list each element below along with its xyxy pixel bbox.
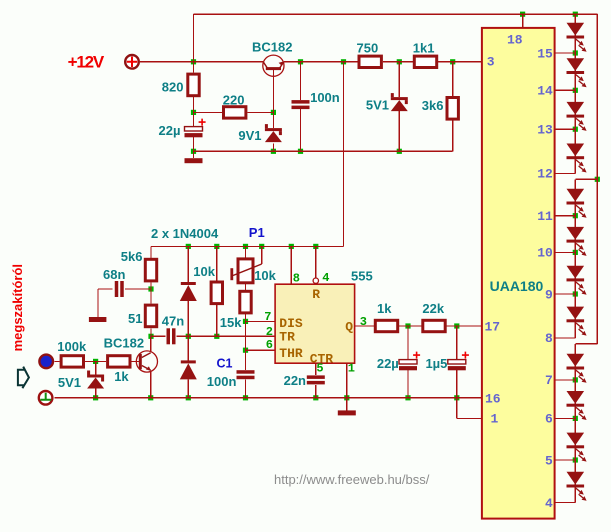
node base of Q2 bbox=[93, 359, 98, 364]
svg-text:2 x 1N4004: 2 x 1N4004 bbox=[151, 226, 219, 241]
wire UAA pin 7 wire bbox=[555, 379, 576, 381]
capacitor 22u electrolytic bbox=[159, 119, 206, 139]
node top wire pin18 bbox=[520, 12, 525, 17]
svg-text:R: R bbox=[312, 287, 320, 302]
svg-text:220: 220 bbox=[223, 92, 245, 107]
wire rail1 horizontal bbox=[194, 150, 453, 152]
svg-text:10k: 10k bbox=[254, 268, 276, 283]
wire P1 top lead bbox=[245, 246, 247, 257]
wire gnd stub colA bbox=[193, 151, 195, 158]
op-amp U2 555 timer IC body bbox=[275, 268, 373, 363]
wire Q1 emitter to 750 bbox=[284, 61, 358, 63]
LED D10 bbox=[567, 307, 587, 336]
pin 4 reset bubble bbox=[313, 278, 318, 283]
wire 1u5 bottom lead bbox=[456, 370, 458, 398]
UAA pin 13 label bbox=[537, 123, 553, 138]
UAA pin 17 label bbox=[485, 319, 501, 334]
UAA pin 10 label bbox=[537, 246, 553, 261]
wire Q pin3 wire bbox=[355, 325, 374, 327]
555 pin1 label bbox=[348, 362, 355, 376]
capacitor 22u output electrolytic bbox=[377, 352, 420, 372]
node diode wire D1 top bbox=[186, 244, 191, 249]
svg-text:BC182: BC182 bbox=[104, 336, 144, 351]
capacitor C1 100n bbox=[207, 356, 255, 389]
wire UAA pin 10 wire bbox=[555, 251, 576, 253]
LED D11 bbox=[567, 354, 587, 383]
wire 22n to ground rail bbox=[315, 385, 317, 398]
wire 1k to 22u2 node bbox=[399, 325, 421, 327]
diode zener 5V1 input bbox=[58, 371, 104, 390]
wire 47n left lead bbox=[151, 335, 166, 337]
wire TR row wire bbox=[177, 335, 276, 337]
node diode wire pin8 bbox=[289, 244, 294, 249]
node TR row D1 bbox=[186, 334, 191, 339]
wire D2 top lead bbox=[187, 336, 189, 360]
wire Q2 emitter vertical bbox=[150, 371, 152, 398]
LED D8 bbox=[567, 227, 587, 256]
svg-text:9: 9 bbox=[545, 287, 553, 302]
wire group2 feed bbox=[575, 178, 597, 180]
node +12V rail / 820 top bbox=[191, 59, 196, 64]
LED D7 bbox=[567, 189, 587, 218]
svg-text:5V1: 5V1 bbox=[366, 98, 389, 113]
resistor R3 750 bbox=[357, 40, 382, 67]
terminal ground (circle) bbox=[39, 391, 53, 405]
wire 5k6 top stub bbox=[150, 246, 152, 257]
resistor R13 1k input bbox=[108, 356, 130, 384]
wire pin1 stub 555 bbox=[346, 363, 348, 398]
svg-text:6: 6 bbox=[266, 338, 273, 352]
svg-text:22µ: 22µ bbox=[377, 356, 399, 371]
label P1 bbox=[249, 225, 265, 240]
svg-text:6: 6 bbox=[545, 412, 553, 427]
node Q row 22u bbox=[405, 323, 410, 328]
wire 51 to TR row bbox=[150, 328, 152, 336]
node rail1 5V1 bbox=[397, 149, 402, 154]
svg-text:100n: 100n bbox=[310, 90, 340, 105]
resistor R8 10k bbox=[193, 264, 222, 304]
wire Q2 collector vertical bbox=[150, 336, 152, 352]
node Q row 1u5 bbox=[454, 323, 459, 328]
svg-text:+12V: +12V bbox=[68, 52, 105, 71]
svg-text:1k: 1k bbox=[377, 301, 392, 316]
svg-text:C1: C1 bbox=[217, 356, 233, 370]
wire C1 to ground rail bbox=[245, 380, 247, 398]
wire DIS pin wire bbox=[246, 320, 276, 322]
node rail1 9V1 bbox=[271, 149, 276, 154]
svg-text:UAA180: UAA180 bbox=[490, 278, 544, 294]
resistor R11 22k bbox=[422, 301, 445, 331]
wire pin4 stub bbox=[315, 246, 317, 277]
diode D1 1N4004 bbox=[180, 282, 197, 301]
wire 5V1 top stub bbox=[398, 62, 400, 97]
svg-text:820: 820 bbox=[162, 80, 184, 95]
svg-text:5: 5 bbox=[545, 453, 553, 468]
wire UAA pin 12 wire bbox=[555, 172, 576, 174]
555 pin2 label bbox=[266, 325, 273, 339]
resistor R10 1k output bbox=[375, 301, 397, 331]
wire UAA pin 6 wire bbox=[555, 417, 576, 419]
svg-text:BC182: BC182 bbox=[252, 39, 292, 54]
wire 5V1b top lead bbox=[95, 361, 97, 374]
capacitor 22n bbox=[284, 373, 325, 388]
svg-text:3k6: 3k6 bbox=[422, 98, 444, 113]
ground 555 area bbox=[338, 410, 356, 415]
UAA pin 15 label bbox=[537, 46, 553, 61]
svg-text:1: 1 bbox=[348, 362, 355, 376]
svg-text:750: 750 bbox=[357, 40, 379, 55]
svg-text:http://www.freeweb.hu/bss/: http://www.freeweb.hu/bss/ bbox=[274, 472, 430, 487]
svg-text:15k: 15k bbox=[220, 315, 242, 330]
svg-text:100k: 100k bbox=[57, 339, 87, 354]
svg-text:CTR: CTR bbox=[310, 352, 334, 367]
node LED tap pin10 bbox=[573, 250, 578, 255]
555 pin8 label bbox=[293, 272, 300, 286]
wire UAA pin 13 wire bbox=[555, 128, 576, 130]
diode zener 9V1 bbox=[238, 124, 282, 143]
wire 1k2 to Q2 base bbox=[130, 360, 139, 362]
UAA pin 1 label bbox=[491, 412, 499, 427]
node 68n node bbox=[148, 286, 153, 291]
ground colA bbox=[185, 158, 203, 163]
wire DIS node to THR node bbox=[245, 321, 247, 350]
555 pin3 label bbox=[360, 315, 367, 329]
node LED tap pin11 bbox=[573, 213, 578, 218]
node ground rail emitter Q2 bbox=[148, 395, 153, 400]
diode D2 1N4004 bbox=[180, 360, 197, 379]
wire UAA pin 4 wire bbox=[555, 502, 576, 504]
555 pin6 label bbox=[266, 338, 273, 352]
node ground rail pin1-555 bbox=[344, 395, 349, 400]
node diode wire P1 top bbox=[243, 244, 248, 249]
UAA pin 4 label bbox=[545, 496, 553, 511]
svg-text:5V1: 5V1 bbox=[58, 375, 81, 390]
node LED tap pin9 bbox=[573, 291, 578, 296]
label +12V bbox=[68, 52, 105, 71]
svg-text:1µ5: 1µ5 bbox=[425, 356, 447, 371]
svg-text:555: 555 bbox=[351, 268, 373, 283]
svg-text:1k: 1k bbox=[114, 369, 129, 384]
svg-text:15: 15 bbox=[537, 46, 553, 61]
wire wiper stub bbox=[261, 246, 263, 264]
wire UAA pin18 stub bbox=[522, 14, 524, 28]
svg-text:16: 16 bbox=[485, 391, 501, 406]
resistor R6 5k6 bbox=[121, 249, 157, 281]
wire 5k6 to 68n node bbox=[150, 283, 152, 289]
node ground rail D2 bbox=[186, 395, 191, 400]
wire 3k6 top stub bbox=[452, 62, 454, 96]
wire D1 top lead bbox=[187, 246, 189, 282]
node THR node bbox=[243, 348, 248, 353]
node diode wire wiper bbox=[259, 244, 264, 249]
node LED tap pin14 bbox=[573, 88, 578, 93]
node TR row 51/collector bbox=[148, 334, 153, 339]
node rail1 22u bbox=[191, 149, 196, 154]
UAA pin 5 label bbox=[545, 453, 553, 468]
svg-text:9V1: 9V1 bbox=[238, 128, 261, 143]
wire 1k1 to UAA pin3 bbox=[438, 61, 482, 63]
svg-text:5k6: 5k6 bbox=[121, 249, 143, 264]
LED D12 bbox=[567, 391, 587, 420]
wire 1u5 top lead bbox=[456, 326, 458, 360]
svg-text:10: 10 bbox=[537, 246, 553, 261]
node ground rail 1u5 bbox=[454, 395, 459, 400]
resistor R4 1k1 bbox=[413, 40, 437, 67]
LED D4 bbox=[567, 58, 587, 87]
555 pin name R bbox=[312, 287, 320, 302]
node 220 left bbox=[191, 110, 196, 115]
node LED tap pin15 bbox=[573, 50, 578, 55]
resistor R7 51 bbox=[128, 305, 157, 327]
svg-text:8: 8 bbox=[545, 331, 553, 346]
wire D2 bottom lead bbox=[187, 379, 189, 397]
wire gnd stub colO bbox=[346, 398, 348, 411]
label 2x1N4004 bbox=[151, 226, 219, 241]
capacitor 47n bbox=[162, 313, 184, 344]
node rail1 100n bbox=[298, 149, 303, 154]
wire 9V1 top stub bbox=[272, 112, 274, 128]
capacitor 100n supply bbox=[292, 90, 340, 109]
svg-text:3: 3 bbox=[360, 315, 367, 329]
svg-text:22µ: 22µ bbox=[159, 123, 181, 138]
svg-text:47n: 47n bbox=[162, 313, 184, 328]
wire +12V terminal to Q1 collector bbox=[140, 61, 263, 63]
wire UAA pin 8 wire bbox=[555, 337, 576, 339]
node DIS node bbox=[243, 319, 248, 324]
svg-text:7: 7 bbox=[545, 373, 553, 388]
555 pin name THR bbox=[279, 346, 303, 361]
node ground rail pin5 bbox=[313, 395, 318, 400]
wire diode row 1N4004 bbox=[151, 245, 344, 247]
label URL bbox=[274, 472, 430, 487]
wire LED chain group3 bbox=[574, 344, 576, 503]
svg-text:2: 2 bbox=[266, 325, 273, 339]
wire right LED rail bbox=[596, 14, 598, 344]
UAA pin 9 label bbox=[545, 287, 553, 302]
UAA pin 3 label bbox=[487, 54, 495, 69]
wire 22u to rail1 bbox=[193, 137, 195, 151]
wire top-left vertical bbox=[193, 14, 195, 62]
svg-text:11: 11 bbox=[537, 209, 553, 224]
svg-text:8: 8 bbox=[293, 272, 300, 286]
wire LED chain group2 bbox=[574, 179, 576, 338]
wire P1 to 15k bbox=[245, 283, 247, 290]
wire ground rail main bbox=[54, 397, 482, 399]
svg-text:P1: P1 bbox=[249, 225, 265, 240]
wire 220 row right bbox=[247, 111, 273, 113]
ground 68n bbox=[89, 317, 107, 322]
resistor R9 15k bbox=[220, 291, 251, 330]
wire 100n top stub bbox=[300, 62, 302, 100]
node 100n top bbox=[298, 59, 303, 64]
wire top horizontal rail bbox=[194, 13, 598, 15]
resistor R1 820 bbox=[162, 74, 199, 96]
node diode wire 10k top bbox=[214, 244, 219, 249]
LED D14 bbox=[567, 472, 587, 501]
555 pin name CTR bbox=[310, 352, 334, 367]
wire 22u2 top lead bbox=[407, 326, 409, 360]
wire THR pin wire bbox=[246, 349, 276, 351]
wire LED chain group1 bbox=[574, 14, 576, 173]
node rail feed group2 bbox=[595, 177, 600, 182]
LED D9 bbox=[567, 266, 587, 295]
wire 100k to base node bbox=[85, 360, 106, 362]
UAA pin 18 label bbox=[507, 32, 523, 47]
wire 10k top lead bbox=[216, 246, 218, 280]
svg-text:3: 3 bbox=[487, 54, 495, 69]
node LED tap pin7 bbox=[573, 377, 578, 382]
wire 10k bottom lead bbox=[216, 304, 218, 336]
LED D5 bbox=[567, 102, 587, 131]
resistor R12 100k bbox=[57, 339, 87, 367]
node top wire LED chain bbox=[573, 12, 578, 17]
wire 15k to DIS node bbox=[245, 314, 247, 322]
svg-text:4: 4 bbox=[322, 271, 329, 285]
diode zener 5V1 top bbox=[366, 93, 408, 113]
svg-text:12: 12 bbox=[537, 167, 553, 182]
wire 820 to 22u bbox=[193, 97, 195, 127]
wire UAA pin 11 wire bbox=[555, 215, 576, 217]
node down-wire top bbox=[341, 59, 346, 64]
UAA pin 11 label bbox=[537, 209, 553, 224]
transistor Q2 BC182 bbox=[104, 336, 158, 373]
UAA pin 16 label bbox=[485, 391, 501, 406]
wire pin1 row horizontal bbox=[457, 417, 482, 419]
svg-text:7: 7 bbox=[264, 310, 271, 324]
node ground rail 22u2 bbox=[405, 395, 410, 400]
wire THR node to C1 bbox=[245, 350, 247, 370]
wire 68n left lead bbox=[98, 288, 113, 290]
UAA pin 12 label bbox=[537, 167, 553, 182]
UAA pin 7 label bbox=[545, 373, 553, 388]
LED D6 bbox=[567, 144, 587, 173]
wire 750 to 1k1 bbox=[383, 61, 413, 63]
wire group3 feed bbox=[575, 343, 597, 345]
svg-text:13: 13 bbox=[537, 123, 553, 138]
svg-text:18: 18 bbox=[507, 32, 523, 47]
svg-text:1: 1 bbox=[491, 412, 499, 427]
node ground rail 5V1 bbox=[93, 395, 98, 400]
op-amp U1 UAA180 LED driver IC body bbox=[482, 28, 555, 519]
wire 22k to 1u5 node bbox=[446, 325, 482, 327]
node diode wire pin4 bbox=[313, 244, 318, 249]
svg-text:17: 17 bbox=[485, 319, 501, 334]
wire down-wire colD bbox=[343, 62, 345, 247]
label megszakitorol bbox=[10, 264, 25, 351]
svg-text:megszakítóról: megszakítóról bbox=[10, 264, 25, 351]
capacitor 68n bbox=[103, 267, 125, 297]
wire 9V1 bottom stub bbox=[272, 143, 274, 151]
wire pin5 stub 555 bbox=[315, 363, 317, 375]
resistor R5 3k6 bbox=[422, 98, 459, 120]
wire 22u2 bottom lead bbox=[407, 370, 409, 398]
svg-text:100n: 100n bbox=[207, 374, 237, 389]
svg-text:22k: 22k bbox=[422, 301, 444, 316]
LED D3 bbox=[567, 23, 587, 52]
wire 5V1b bottom lead bbox=[95, 389, 97, 398]
node base of Q1 bbox=[271, 110, 276, 115]
svg-text:22n: 22n bbox=[284, 373, 306, 388]
node 1k1 / pin3 / 3k6 bbox=[450, 59, 455, 64]
arrow input marker bbox=[18, 367, 29, 389]
wire 68n gnd stub bbox=[97, 289, 99, 317]
LED D13 bbox=[567, 433, 587, 462]
svg-text:14: 14 bbox=[537, 84, 553, 99]
555 pin7 label bbox=[264, 310, 271, 324]
svg-text:THR: THR bbox=[279, 346, 303, 361]
node LED tap pin6 bbox=[573, 416, 578, 421]
node TR row 10k bbox=[214, 334, 219, 339]
svg-text:1k1: 1k1 bbox=[413, 40, 435, 55]
wire 68n node to 51 bbox=[150, 289, 152, 304]
555 pin5 label bbox=[316, 362, 323, 376]
svg-text:TR: TR bbox=[279, 330, 295, 345]
wire 5V1 bottom stub bbox=[398, 111, 400, 151]
potentiometer P1 10k bbox=[230, 259, 276, 283]
node ground rail C1 bbox=[243, 395, 248, 400]
svg-text:4: 4 bbox=[545, 496, 553, 511]
wire UAA pin 15 wire bbox=[555, 52, 576, 54]
svg-text:Q: Q bbox=[345, 320, 353, 335]
svg-text:68n: 68n bbox=[103, 267, 125, 282]
wire 100n bottom stub bbox=[300, 109, 302, 151]
node LED tap pin5 bbox=[573, 457, 578, 462]
svg-text:51: 51 bbox=[128, 311, 142, 326]
wire UAA pin 5 wire bbox=[555, 459, 576, 461]
resistor R2 220 bbox=[223, 92, 246, 118]
wire input terminal to 100k bbox=[54, 360, 59, 362]
UAA pin 6 label bbox=[545, 412, 553, 427]
555 pin name TR bbox=[279, 330, 295, 345]
wire D1 bottom lead bbox=[187, 301, 189, 336]
UAA pin 8 label bbox=[545, 331, 553, 346]
555 pin name DIS bbox=[279, 316, 303, 331]
capacitor 1u5 electrolytic bbox=[425, 352, 468, 372]
terminal input (blue) bbox=[39, 355, 53, 369]
wire pin1 row vertical bbox=[456, 398, 458, 419]
wire UAA pin 9 wire bbox=[555, 293, 576, 295]
wire Q1 base stub bbox=[272, 70, 274, 112]
555 pin4 label bbox=[322, 271, 329, 285]
wire UAA pin 14 wire bbox=[555, 89, 576, 91]
transistor Q1 BC182 bbox=[252, 39, 292, 76]
wire pin8 stub bbox=[290, 246, 292, 284]
node LED tap pin13 bbox=[573, 127, 578, 132]
svg-text:10k: 10k bbox=[193, 264, 215, 279]
wire 820 top stub bbox=[193, 62, 195, 73]
UAA pin 14 label bbox=[537, 84, 553, 99]
terminal +12V bbox=[125, 55, 139, 69]
node 5V1 top bbox=[397, 59, 402, 64]
wire 68n right lead bbox=[125, 288, 151, 290]
555 pin name Q bbox=[345, 320, 353, 335]
wire 3k6 bottom stub bbox=[452, 120, 454, 152]
wire 220 row left bbox=[194, 111, 223, 113]
